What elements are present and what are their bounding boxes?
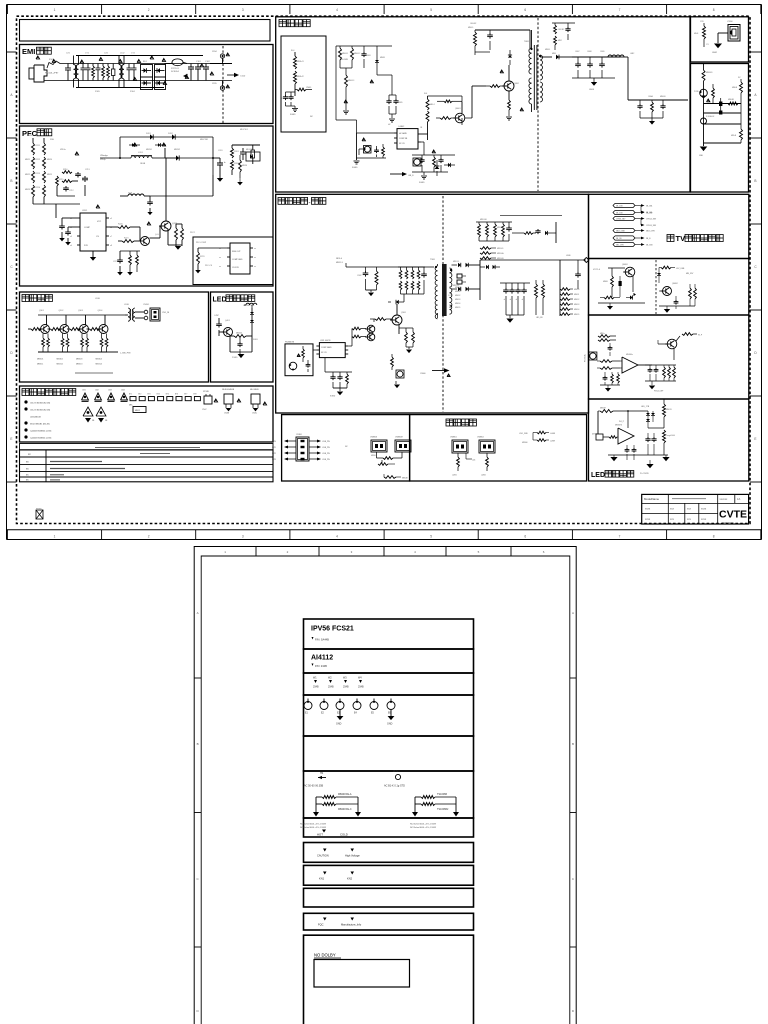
blc arrow left bbox=[288, 440, 296, 442]
LED protect section box bbox=[211, 292, 274, 382]
svg-text:COMP GND: COMP GND bbox=[232, 259, 243, 261]
svg-text:xxx: xxx bbox=[687, 518, 692, 521]
capacitor CY1 pair bbox=[82, 64, 84, 69]
sheet1 bottom ruler lines bbox=[7, 529, 762, 531]
capacitor C201 bulk bbox=[219, 158, 221, 163]
svg-text:MB010: MB010 bbox=[455, 287, 460, 289]
svg-text:MB_32V: MB_32V bbox=[686, 273, 694, 275]
svg-text:MB010: MB010 bbox=[574, 289, 579, 291]
rc2 top resistor bbox=[703, 64, 705, 70]
standby snubber cluster bbox=[475, 29, 530, 31]
svg-text:BT5: BT5 bbox=[166, 394, 169, 396]
svg-text:ZCD: ZCD bbox=[84, 245, 89, 247]
svg-text:NTC101: NTC101 bbox=[171, 68, 180, 70]
standby label bbox=[279, 20, 286, 27]
boxC wires bbox=[620, 360, 622, 362]
svg-text:CB2: CB2 bbox=[95, 390, 99, 392]
capacitor C102 bbox=[197, 64, 199, 68]
blc connector block bbox=[296, 437, 309, 461]
PFC IC U201 bbox=[80, 213, 106, 251]
standby bjt Q601 bbox=[440, 117, 451, 120]
svg-text:MB12: MB12 bbox=[135, 410, 140, 412]
svg-text:L-EB1: L-EB1 bbox=[452, 475, 457, 477]
rc2 lower loop bbox=[703, 124, 705, 146]
svg-text:3: 3 bbox=[242, 8, 244, 12]
svg-text:T6B1: T6B1 bbox=[524, 41, 530, 43]
svg-text:MB302: MB302 bbox=[57, 359, 64, 361]
driver BJT Q202 bbox=[141, 237, 150, 246]
svg-text:MB014: MB014 bbox=[455, 303, 460, 305]
svg-text:R221: R221 bbox=[124, 238, 129, 240]
svg-text:PFC-CS: PFC-CS bbox=[205, 265, 213, 267]
eyelet grounds bbox=[339, 710, 341, 716]
blc resistors bbox=[376, 452, 378, 458]
standby transformer T601 bbox=[529, 48, 532, 53]
svg-text:MB5x: MB5x bbox=[600, 333, 605, 335]
svg-text:SCK054: SCK054 bbox=[171, 71, 180, 73]
junliu output connector CN301 bbox=[144, 310, 148, 314]
net flag CPBB_3BV bbox=[613, 216, 635, 220]
svg-text:MB6-1: MB6-1 bbox=[430, 104, 435, 106]
emitter resistors R313 bbox=[81, 338, 84, 347]
svg-text:CB-4 3 B43B4 (B2.2B): CB-4 3 B43B4 (B2.2B) bbox=[30, 410, 50, 412]
svg-text:MB201: MB201 bbox=[146, 149, 152, 151]
svg-text:MB2015ALA: MB2015ALA bbox=[338, 793, 352, 796]
gnd PFC out bbox=[217, 178, 223, 182]
svg-text:+: + bbox=[504, 298, 506, 301]
svg-text:MB6-11: MB6-11 bbox=[342, 53, 348, 55]
sense resistors bbox=[175, 228, 178, 240]
svg-text:L6B2: L6B2 bbox=[630, 53, 634, 55]
svg-text:MB013: MB013 bbox=[455, 299, 460, 301]
svg-text:T5B1: T5B1 bbox=[430, 259, 436, 261]
thermal resistor right pair bbox=[414, 797, 416, 812]
gnd arrow EMI bbox=[183, 74, 188, 78]
svg-text:COMP: COMP bbox=[84, 227, 91, 229]
svg-text:LED: LED bbox=[213, 297, 227, 304]
svg-text:SGND: SGND bbox=[330, 396, 336, 398]
base resistor R302 bbox=[51, 328, 61, 331]
standby sub-box bbox=[281, 36, 326, 132]
hengliu right ladder bbox=[559, 260, 561, 316]
EMI dashed divider bbox=[222, 46, 224, 123]
svg-text:VB54p: VB54p bbox=[100, 159, 106, 161]
sheet1 outer border top bbox=[7, 4, 762, 6]
svg-text:R2A: R2A bbox=[50, 138, 54, 141]
TV net box bbox=[589, 194, 749, 258]
svg-text:3B_13B: 3B_13B bbox=[616, 206, 623, 208]
svg-text:CN8B0B: CN8B0B bbox=[370, 437, 378, 439]
rc2 resistor right of opto bbox=[712, 88, 715, 98]
svg-text:MB8-41: MB8-41 bbox=[297, 61, 304, 63]
choke L102 bbox=[119, 65, 121, 70]
boxC right bank bbox=[645, 364, 676, 366]
blc arrow right bbox=[309, 446, 317, 448]
svg-text:A: A bbox=[754, 93, 757, 97]
svg-text:L6B-5MB: L6B-5MB bbox=[340, 59, 349, 61]
net flag 3B_3B bbox=[613, 236, 635, 240]
svg-text:xxxxxx: xxxxxx bbox=[720, 498, 728, 501]
base resistor R303 bbox=[70, 328, 80, 331]
svg-text:MF-P101: MF-P101 bbox=[240, 129, 248, 131]
svg-text:GND: GND bbox=[387, 723, 393, 726]
svg-text:MB514A: MB514A bbox=[497, 252, 504, 255]
svg-text:CN8B01: CN8B01 bbox=[450, 437, 457, 439]
svg-text:PS-504L-2PBT: PS-504L-2PBT bbox=[45, 73, 59, 75]
svg-text:1B: 1B bbox=[420, 127, 423, 129]
svg-text:3B_33B: 3B_33B bbox=[646, 245, 653, 247]
svg-text:1: 1 bbox=[224, 550, 226, 554]
svg-text:SGND: SGND bbox=[352, 167, 358, 169]
svg-text:xx: xx bbox=[254, 257, 256, 259]
sheet2 row hot-cold bbox=[304, 818, 474, 837]
standby sec rectifier bbox=[540, 56, 552, 58]
svg-text:MB-B: MB-B bbox=[694, 33, 699, 35]
sheet2 row caution bbox=[304, 843, 474, 863]
eyelet circles row bbox=[307, 699, 309, 702]
svg-text:x4: x4 bbox=[70, 245, 72, 247]
svg-text:xx: xx bbox=[26, 474, 29, 477]
svg-text:R215: R215 bbox=[59, 179, 64, 181]
svg-text:C: C bbox=[10, 265, 13, 269]
boxC input resistors bbox=[600, 360, 612, 363]
hengliu IC bottom caps bbox=[324, 358, 326, 372]
svg-text:TS1006B: TS1006B bbox=[437, 793, 447, 796]
svg-text:Q6B2: Q6B2 bbox=[514, 83, 519, 85]
svg-text:MB015: MB015 bbox=[455, 307, 460, 309]
balance transistor Q304 bbox=[99, 325, 108, 334]
svg-text:-: - bbox=[309, 201, 311, 207]
svg-text:MB303: MB303 bbox=[76, 359, 83, 361]
svg-text:R211: R211 bbox=[36, 145, 40, 147]
bottom-left tiny stamp bbox=[36, 510, 43, 519]
svg-text:CS: CS bbox=[96, 236, 99, 238]
sheet2 top zone ticks bbox=[255, 547, 257, 557]
svg-text:MB8: MB8 bbox=[552, 53, 556, 55]
hengliu clamp diode bbox=[396, 300, 399, 304]
PFC section box bbox=[20, 126, 274, 286]
sheet2 row eyelets bbox=[304, 695, 474, 736]
LEDprot zener stack bbox=[251, 308, 253, 312]
fuse F101 bbox=[47, 61, 62, 68]
comp network R/C cluster bbox=[56, 176, 59, 186]
svg-text:L30SS: L30SS bbox=[42, 298, 49, 300]
hengliu right cap bbox=[577, 260, 579, 272]
svg-text:CY1: CY1 bbox=[85, 53, 90, 55]
svg-text:3B13_3BB: 3B13_3BB bbox=[616, 231, 625, 233]
svg-text:NC CS: NC CS bbox=[321, 352, 327, 354]
svg-text:MB5B7: MB5B7 bbox=[600, 408, 606, 410]
balance transistor Q301 bbox=[41, 325, 50, 334]
svg-text:Q302: Q302 bbox=[59, 310, 65, 312]
svg-text:D202: D202 bbox=[168, 133, 174, 135]
svg-text:C: C bbox=[197, 877, 200, 881]
svg-text:MB6D: MB6D bbox=[380, 57, 386, 59]
boxC opamp bbox=[622, 357, 638, 373]
standby TL431 bbox=[435, 166, 440, 169]
svg-text:VCC1-4: VCC1-4 bbox=[593, 269, 601, 271]
svg-text:R201: R201 bbox=[234, 151, 240, 153]
wire junliu bus bbox=[38, 314, 125, 316]
svg-text:HV: HV bbox=[388, 124, 391, 126]
capacitor C216 bbox=[149, 196, 151, 200]
no dolby rectangle bbox=[314, 960, 410, 988]
capacitor C103 bbox=[205, 64, 207, 68]
svg-text:B: B bbox=[754, 179, 756, 183]
svg-text:BT3: BT3 bbox=[147, 394, 150, 396]
PFC bottom caps bbox=[119, 251, 121, 258]
diode D201 bbox=[150, 134, 153, 139]
blc arrow left bbox=[288, 446, 296, 448]
svg-text:P/N: SA44B: P/N: SA44B bbox=[315, 638, 329, 642]
svg-text:3L4: 3L4 bbox=[424, 93, 427, 95]
resistor R220 gate bbox=[109, 226, 118, 228]
svg-text:L4B14B14B: L4B14B14B bbox=[30, 417, 41, 419]
svg-text:SDN OUT: SDN OUT bbox=[232, 251, 241, 253]
svg-text:C6BA: C6BA bbox=[648, 95, 653, 98]
sheet2 row AI4112 bbox=[304, 649, 474, 673]
boxB left resistor bbox=[611, 276, 614, 287]
svg-text:L5V_USB: L5V_USB bbox=[676, 268, 685, 270]
hengliu bottom diode flag bbox=[432, 370, 444, 372]
sheet1 dashed content border bbox=[17, 16, 751, 523]
LEDprot transistor Q401 bbox=[224, 328, 233, 337]
svg-text:AI4112: AI4112 bbox=[311, 655, 333, 662]
svg-text:CN8-1: CN8-1 bbox=[306, 87, 311, 89]
svg-text:AC 50-60 06.35B: AC 50-60 06.35B bbox=[304, 785, 324, 788]
svg-text:x8: x8 bbox=[110, 245, 112, 247]
svg-text:1: 1 bbox=[54, 8, 56, 12]
LEDprot gnd bbox=[229, 337, 231, 353]
blc arrow left bbox=[288, 458, 296, 460]
svg-text:1P05: 1P05 bbox=[212, 83, 218, 85]
sheet2 row screws bbox=[304, 673, 474, 695]
svg-text:MB2015ALC: MB2015ALC bbox=[338, 808, 352, 811]
blc arrow right bbox=[309, 452, 317, 454]
svg-text:W1: W1 bbox=[313, 677, 317, 680]
boxB dashed divider bbox=[655, 260, 657, 314]
EMI section box bbox=[20, 45, 274, 124]
svg-text:E5: E5 bbox=[371, 713, 375, 715]
zcd winding bbox=[128, 194, 132, 196]
svg-text:GND: GND bbox=[336, 723, 342, 726]
bridge rectifier BD101 bbox=[141, 65, 153, 78]
sheet2 row dolby (open bottom) bbox=[304, 935, 474, 1024]
svg-text:1B/4B: 1B/4B bbox=[140, 163, 146, 165]
svg-text:MB51-3: MB51-3 bbox=[336, 262, 343, 264]
svg-text:SGND: SGND bbox=[290, 114, 296, 116]
svg-text:PL-C24PB: PL-C24PB bbox=[640, 473, 649, 475]
svg-text:CVTE: CVTE bbox=[719, 509, 747, 521]
right box B bbox=[589, 259, 749, 316]
svg-text:BT2: BT2 bbox=[138, 394, 141, 396]
svg-text:LED: LED bbox=[591, 472, 605, 479]
svg-text:C5B2: C5B2 bbox=[357, 275, 362, 277]
sheet2 outer border bbox=[194, 547, 576, 1024]
svg-text:PCS: PCS bbox=[393, 771, 398, 773]
ledovp out wire bbox=[634, 435, 648, 437]
CN601 gnd bbox=[718, 32, 728, 34]
standby IC out node bbox=[421, 133, 428, 135]
svg-text:x3: x3 bbox=[70, 236, 72, 238]
svg-text:254B: 254B bbox=[358, 686, 364, 689]
blc arrow right bbox=[309, 440, 317, 442]
svg-text:D: D bbox=[572, 1009, 575, 1013]
svg-text:MB5-B: MB5-B bbox=[731, 135, 737, 137]
svg-text:D: D bbox=[10, 351, 13, 355]
svg-text:MB012: MB012 bbox=[455, 295, 460, 297]
boxC left lower bbox=[604, 372, 606, 376]
diode D202 bbox=[172, 134, 175, 139]
PFC MOSFET Q201 bbox=[161, 221, 171, 231]
svg-text:2: 2 bbox=[148, 535, 150, 539]
svg-text:MB202: MB202 bbox=[174, 149, 180, 151]
sheet2 inner border bbox=[201, 556, 570, 1024]
svg-text:GND8: GND8 bbox=[589, 89, 594, 91]
svg-text:CAUTION: CAUTION bbox=[317, 854, 329, 858]
svg-text:C: C bbox=[754, 265, 757, 269]
svg-text:NC: NC bbox=[345, 446, 348, 448]
svg-text:xxx: xxx bbox=[687, 508, 692, 511]
bottom-left connector box bbox=[282, 415, 410, 481]
svg-text:5: 5 bbox=[478, 550, 480, 554]
svg-text:2: 2 bbox=[148, 8, 150, 12]
svg-text:B: B bbox=[10, 179, 12, 183]
sheet2 side zone ticks bbox=[194, 677, 201, 679]
emitter resistors R311 bbox=[42, 338, 45, 347]
svg-text:L6B_B: L6B_B bbox=[408, 175, 414, 177]
svg-text:MB8-1: MB8-1 bbox=[545, 49, 550, 51]
net flag 3B_13B bbox=[613, 203, 635, 207]
ledovp caps bbox=[647, 433, 649, 437]
svg-text:ModelName: ModelName bbox=[644, 497, 660, 501]
svg-text:QB601: QB601 bbox=[455, 108, 461, 110]
svg-text:MB5141: MB5141 bbox=[497, 227, 504, 229]
boxB right circuit bbox=[661, 266, 671, 269]
svg-text:3B1_3PB: 3B1_3PB bbox=[616, 245, 624, 247]
svg-text:MB4B4s: MB4B4s bbox=[626, 354, 633, 356]
svg-text:L_NB_PIN: L_NB_PIN bbox=[120, 353, 131, 355]
svg-text:C102: C102 bbox=[205, 61, 211, 63]
svg-text:NC: NC bbox=[310, 116, 313, 118]
backlight resistors bbox=[457, 453, 459, 457]
svg-text:xxx: xxx bbox=[670, 518, 675, 521]
svg-text:3B: 3B bbox=[92, 420, 95, 422]
svg-text:HV GATE: HV GATE bbox=[399, 132, 408, 135]
svg-text:L-EB8: L-EB8 bbox=[550, 433, 555, 435]
sheet2 row model IPV56 bbox=[304, 619, 474, 649]
svg-text:MB24: MB24 bbox=[47, 159, 52, 161]
varistor RV1 bbox=[112, 69, 115, 76]
hengliu gate resistor bbox=[375, 318, 386, 321]
hengliu fb components bbox=[391, 357, 394, 367]
svg-text:D201: D201 bbox=[146, 133, 152, 135]
svg-text:U201: U201 bbox=[82, 210, 88, 212]
svg-text:xx: xx bbox=[26, 467, 29, 470]
svg-text:xxxx: xxxx bbox=[645, 508, 651, 511]
svg-text:KN1: KN1 bbox=[319, 877, 325, 881]
svg-text:3: 3 bbox=[351, 550, 353, 554]
svg-text:L30B: L30B bbox=[95, 298, 100, 300]
svg-text:GNB: GNB bbox=[699, 155, 704, 157]
svg-text:C6B8: C6B8 bbox=[587, 51, 592, 53]
svg-text:C7L: C7L bbox=[706, 44, 709, 46]
hengliu snub R right bbox=[524, 232, 533, 235]
kn row bbox=[323, 872, 327, 875]
resistor R102 bbox=[102, 66, 105, 78]
svg-text:CB1: CB1 bbox=[82, 390, 86, 392]
resistor R103 bbox=[107, 66, 110, 78]
svg-text:BT7: BT7 bbox=[184, 394, 187, 396]
svg-text:NC/3ohm/640L+5%,1/16W: NC/3ohm/640L+5%,1/16W bbox=[410, 827, 437, 829]
svg-text:BD1: BD1 bbox=[143, 61, 148, 63]
junliu label bbox=[22, 295, 29, 302]
svg-text:IPV56 FCS21: IPV56 FCS21 bbox=[311, 626, 354, 633]
svg-text:6: 6 bbox=[543, 550, 545, 554]
hengliu label bbox=[278, 198, 285, 205]
svg-text:Tough1000: Tough1000 bbox=[666, 435, 675, 437]
svg-text:C: C bbox=[572, 877, 575, 881]
NTC RT101 bbox=[165, 63, 173, 65]
svg-text:SGND: SGND bbox=[419, 182, 425, 184]
hengliu input rail bbox=[346, 266, 434, 268]
svg-text:Q401: Q401 bbox=[225, 320, 231, 322]
svg-text:MB5149: MB5149 bbox=[497, 248, 503, 250]
svg-text:NO DOLBY: NO DOLBY bbox=[314, 953, 336, 958]
hengliu sec double diodes bbox=[480, 266, 485, 268]
svg-text:W1_P: W1_P bbox=[619, 421, 625, 423]
sheet1 right zone ticks bbox=[750, 51, 762, 53]
svg-text:C6B9: C6B9 bbox=[600, 51, 605, 53]
choke L101 bbox=[74, 65, 76, 70]
svg-text:4B4 4B4B: 4B4 4B4B bbox=[250, 389, 259, 391]
LEDprot resistor R402 bbox=[234, 335, 246, 338]
standby warn triangles bbox=[500, 70, 503, 73]
AC inlet J101 bbox=[29, 68, 34, 79]
svg-text:CN1_NI: CN1_NI bbox=[162, 312, 170, 314]
svg-text:xxxx: xxxx bbox=[701, 508, 707, 511]
svg-text:254B: 254B bbox=[343, 686, 349, 689]
svg-text:3B13_3PB: 3B13_3PB bbox=[646, 231, 655, 233]
LEDprot cap C402 bbox=[239, 338, 241, 342]
hengliu transformer T501 bbox=[435, 266, 437, 271]
svg-text:MB011: MB011 bbox=[574, 294, 579, 296]
sub-box resistor RH bbox=[297, 88, 306, 91]
hengliu clamp resistors bbox=[398, 266, 425, 268]
svg-text:CPB14_3BV: CPB14_3BV bbox=[646, 225, 657, 227]
standby dashed divider bbox=[537, 18, 539, 191]
sheet1 top zone ticks bbox=[6, 5, 8, 15]
svg-text:CN8B0B7: CN8B0B7 bbox=[395, 437, 403, 439]
svg-text:3L4: 3L4 bbox=[291, 50, 295, 52]
svg-text:BT4: BT4 bbox=[157, 394, 160, 396]
ledovp bottom bbox=[608, 454, 668, 456]
svg-text:xx: xx bbox=[28, 453, 31, 456]
svg-text:CS ZCD: CS ZCD bbox=[232, 267, 240, 269]
standby bottom gnd bbox=[423, 172, 425, 175]
svg-text:MB2B: MB2B bbox=[242, 165, 248, 167]
svg-text:x7: x7 bbox=[110, 236, 112, 238]
standby startup cluster bbox=[336, 45, 392, 47]
svg-text:MB304: MB304 bbox=[96, 359, 103, 361]
svg-text:+: + bbox=[516, 298, 518, 301]
svg-text:MB8-B: MB8-B bbox=[732, 87, 738, 89]
svg-text:xxxxx xxxxx: xxxxx xxxxx bbox=[722, 522, 734, 524]
standby sec snubber bbox=[552, 22, 575, 24]
svg-text:E: E bbox=[10, 437, 12, 441]
rc2 opto LED bbox=[700, 89, 708, 97]
PFC aux sub-box bbox=[193, 237, 273, 285]
